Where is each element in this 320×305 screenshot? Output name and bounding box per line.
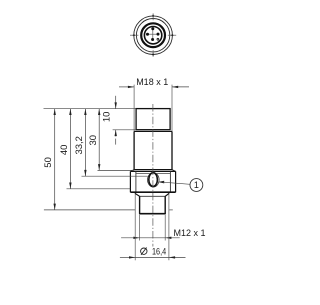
connector bottom line [139,213,166,215]
top view circle C2 [136,19,169,52]
pin 4 bottom [151,38,154,41]
diameter 16,4 extension line left [134,194,136,261]
M18 extension line left [133,85,135,132]
M12 extension line right [164,215,166,241]
hex top corner diagonal left [130,170,134,172]
M12 dimension line [121,237,180,239]
svg-text:16,4: 16,4 [152,247,166,257]
barrel bottom line [134,169,172,171]
hex facet line right [169,171,171,192]
sensor cap outline [136,109,170,130]
main centerline [152,104,154,247]
flange right stub [168,192,170,193]
pin 2 left [146,33,149,36]
hex chamfer line [136,173,171,175]
top view thick ring C3 [141,23,165,47]
M18 arrow right [172,86,178,88]
dimension 40 line [69,109,71,189]
callout leader line [163,182,190,184]
hex right edge [175,171,177,192]
callout leader arrow [158,181,164,184]
top view inner circle C4 [144,27,161,44]
connector right edge [164,196,166,213]
33,2 extension line [82,175,148,177]
top reference line [44,108,137,110]
svg-text:33,2: 33,2 [74,136,85,155]
hex top line [130,170,175,172]
50 extension line [44,209,135,211]
svg-text:40: 40 [59,145,70,156]
40 extension line [67,188,131,190]
LED inner ellipse [149,173,158,187]
LED window outer ellipse [148,173,160,187]
connector left edge [139,196,141,213]
barrel top shoulder [134,130,172,132]
hex top corner diagonal right [172,170,176,172]
cap bottom extension line [113,129,137,131]
dimension 10 line bottom [115,130,117,137]
svg-text:10: 10 [101,112,112,123]
dimension 10 line top [115,96,117,109]
hex facet line left [135,171,137,192]
M12 arrow left [133,237,139,239]
svg-text:50: 50 [43,157,54,168]
svg-text:1: 1 [194,180,199,190]
svg-text:M12 x 1: M12 x 1 [174,228,206,238]
M12 extension line left [139,215,141,241]
flange chamfer right [165,194,169,197]
callout circle 1 [190,179,203,192]
diameter 16,4 extension line right [168,194,170,261]
flange left stub [134,192,136,193]
M18 dimension line left part [119,86,189,88]
dimension 33,2 line [84,109,86,177]
dimension 30 line [98,109,100,171]
diameter arrow right [169,256,175,258]
barrel left edge [133,131,135,169]
diameter 16,4 dimension line [120,256,186,258]
M12 arrow right [165,237,171,239]
diameter symbol [141,248,147,254]
M18 extension line right [171,85,173,132]
M18 arrow left [128,86,134,88]
barrel right edge [171,131,173,169]
30 extension line [98,169,135,171]
keying notch [157,38,159,40]
flange chamfer left [135,194,139,197]
dimension 50 line [54,109,56,210]
center tick top [130,13,176,56]
pin 1 top [151,27,154,30]
tick flag top [132,14,173,56]
svg-text:30: 30 [88,135,99,146]
center cross dashes [146,28,159,41]
hex bottom line [130,191,175,193]
top view outer circle C1 [134,16,173,55]
svg-text:M18 x 1: M18 x 1 [136,77,168,87]
pin 3 right [157,33,160,36]
connector top line [140,195,166,197]
50 extension line right stub [169,209,173,211]
hex left edge [129,171,131,192]
diameter arrow left [129,256,135,258]
